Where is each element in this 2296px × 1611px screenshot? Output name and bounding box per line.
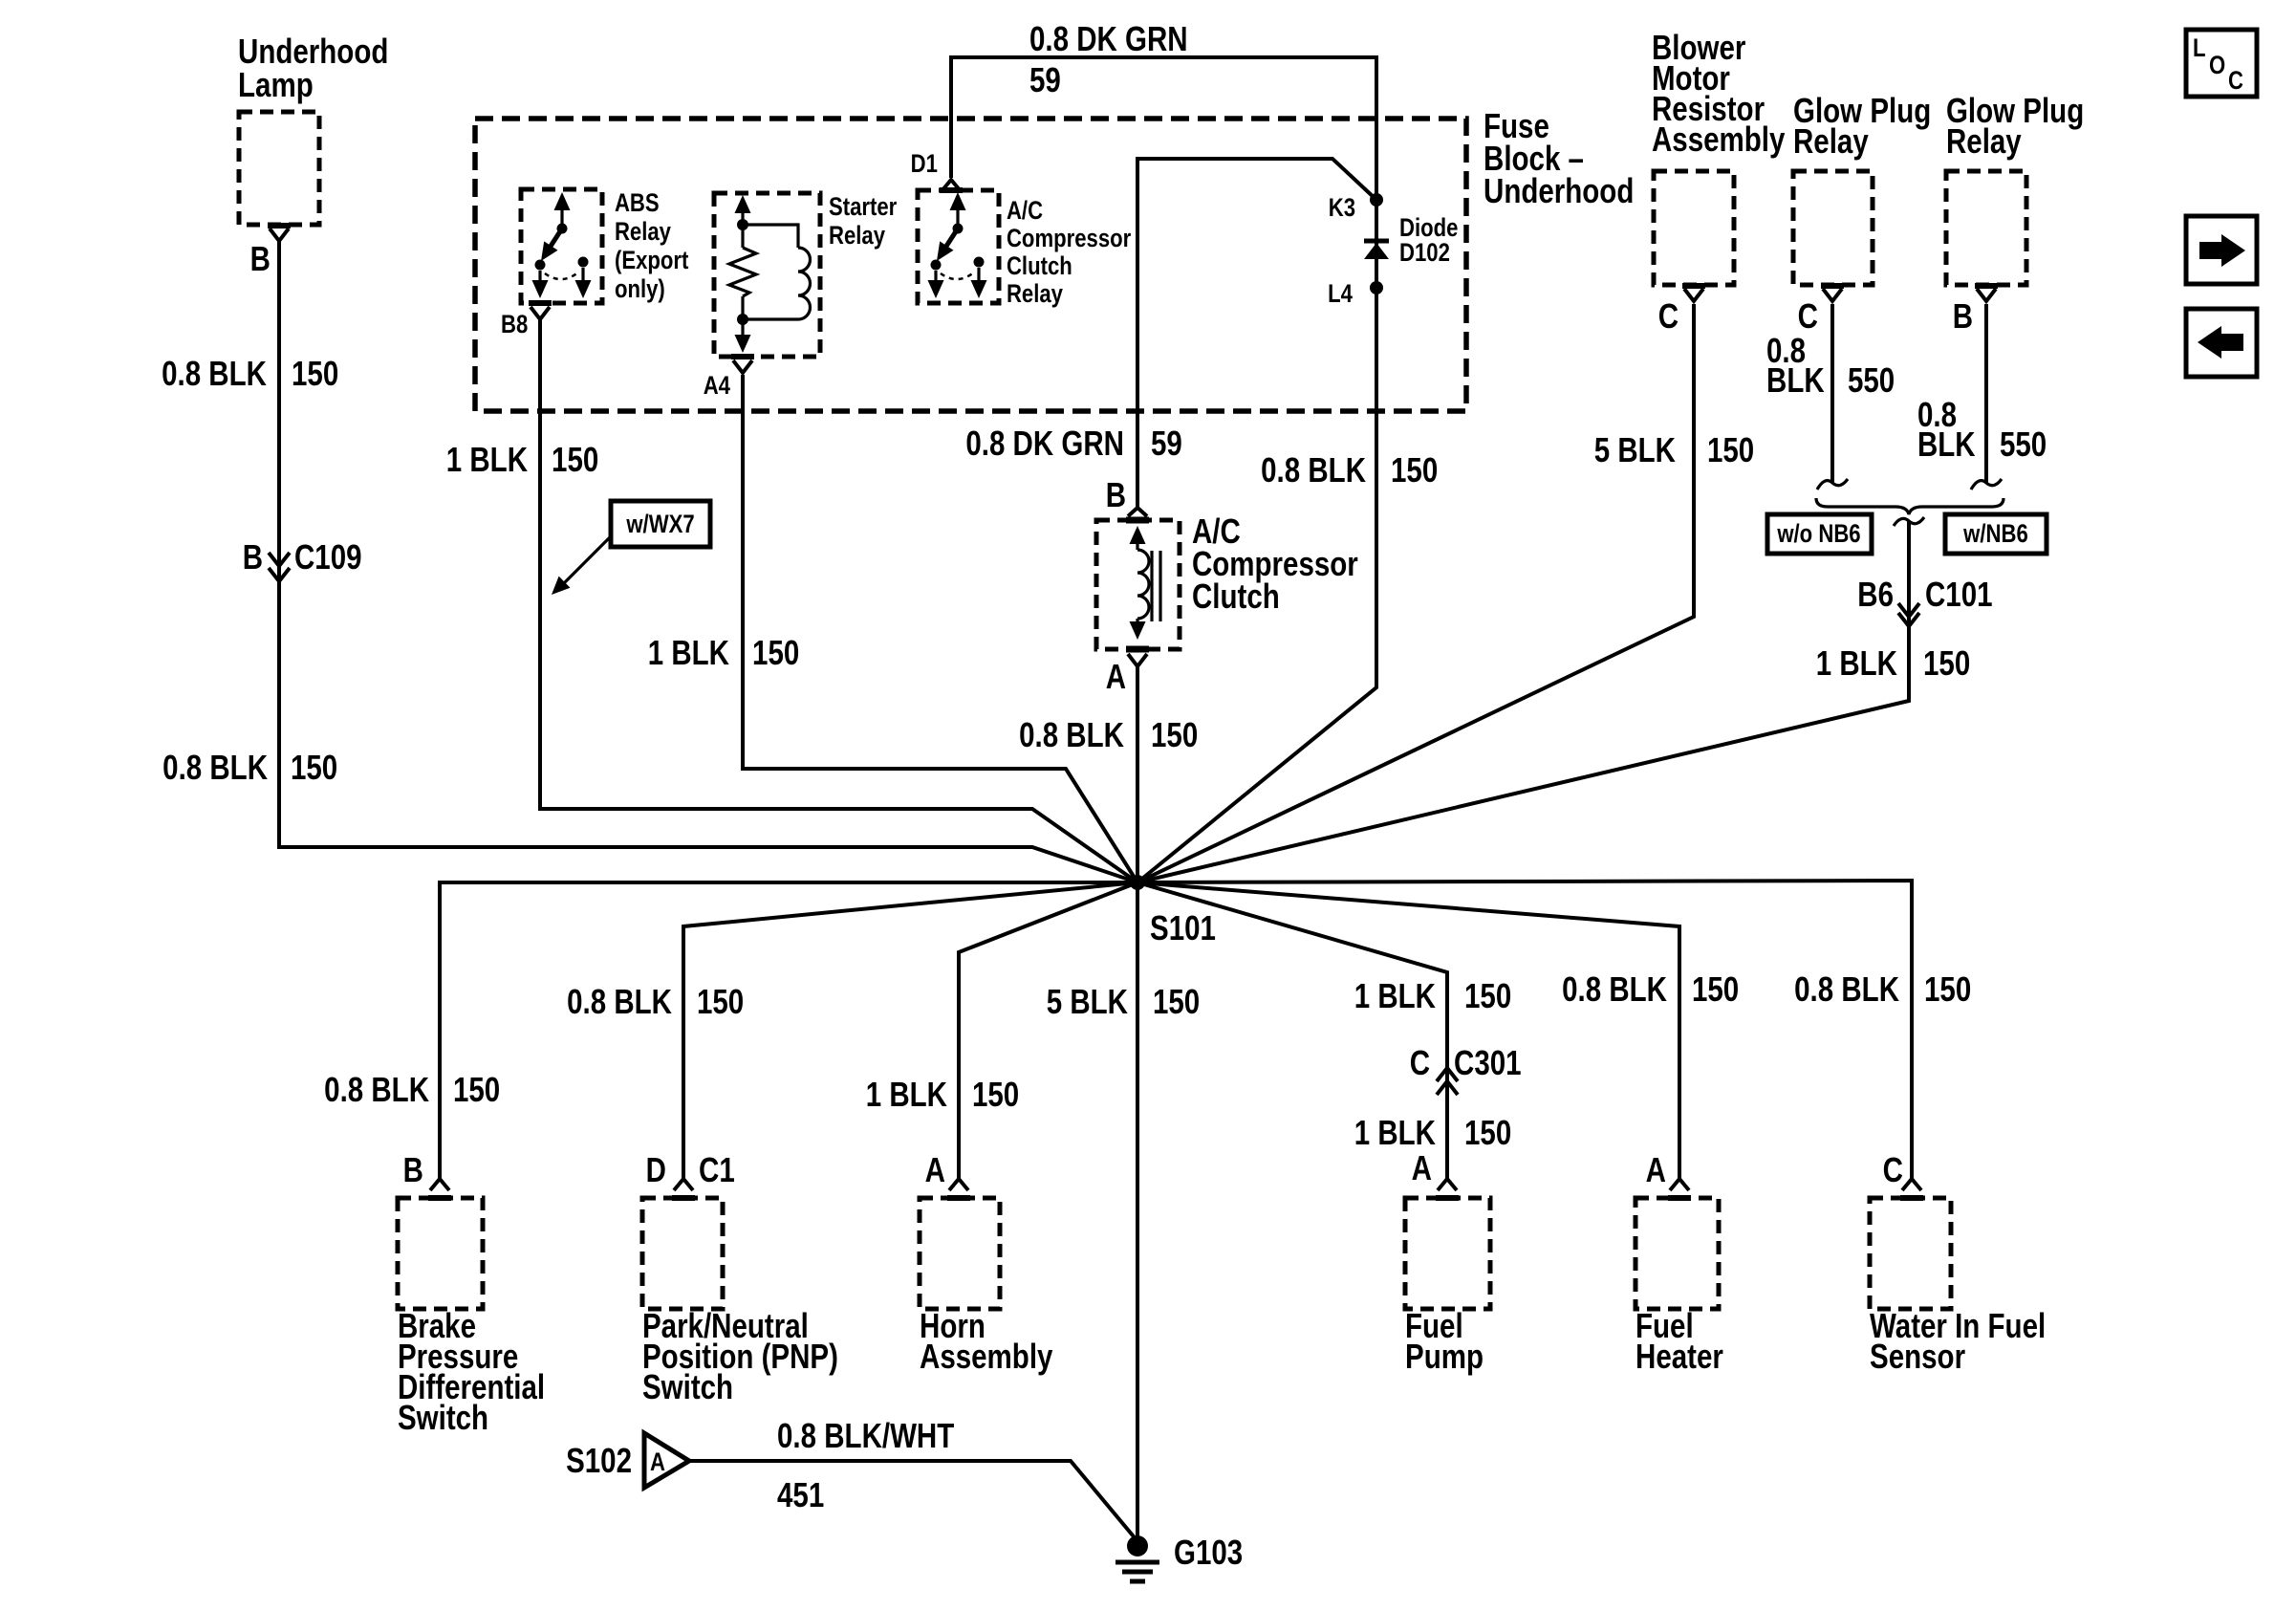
svg-text:B8: B8 xyxy=(501,311,528,339)
coil (starter relay) xyxy=(743,225,798,248)
svg-text:0.8 DK GRN: 0.8 DK GRN xyxy=(965,424,1124,462)
fuel heater dashed box xyxy=(1635,1198,1719,1309)
svg-text:0.8 BLK: 0.8 BLK xyxy=(567,982,672,1020)
svg-text:Pump: Pump xyxy=(1405,1337,1484,1375)
svg-text:C: C xyxy=(1410,1043,1430,1081)
pin A chevron fuel pump xyxy=(1438,1179,1457,1190)
node K3 xyxy=(1370,193,1383,207)
pin C chevron glow plug relay 1 xyxy=(1823,289,1842,301)
svg-text:0.8 BLK: 0.8 BLK xyxy=(1562,969,1667,1008)
wire 1 BLK 150 from S101 through C301 to fuel pump A xyxy=(1137,882,1447,1179)
svg-text:C101: C101 xyxy=(1925,575,1993,613)
svg-text:150: 150 xyxy=(1151,715,1198,753)
svg-text:C109: C109 xyxy=(294,537,362,576)
svg-text:Relay: Relay xyxy=(1946,121,2022,160)
svg-text:Assembly: Assembly xyxy=(920,1337,1053,1375)
back arrow box xyxy=(2186,309,2257,377)
svg-text:59: 59 xyxy=(1151,424,1182,462)
svg-text:150: 150 xyxy=(292,354,338,392)
resistor (starter relay) xyxy=(729,248,756,296)
pin A chevron horn xyxy=(949,1179,968,1190)
svg-text:C1: C1 xyxy=(699,1150,735,1188)
pin B chevron underhood lamp xyxy=(270,229,289,241)
svg-text:0.8 BLK: 0.8 BLK xyxy=(324,1070,429,1108)
svg-text:150: 150 xyxy=(453,1070,500,1108)
svg-text:0.8 BLK: 0.8 BLK xyxy=(162,354,267,392)
park/neutral position switch dashed box xyxy=(642,1198,723,1309)
svg-text:150: 150 xyxy=(1153,982,1200,1020)
svg-text:0.8 BLK: 0.8 BLK xyxy=(1019,715,1124,753)
ABS relay dashed box xyxy=(521,189,602,303)
svg-text:A: A xyxy=(1646,1150,1666,1188)
wire 0.8 BLK 550 from glow plug relay C to splice tilde xyxy=(1830,304,1834,483)
svg-text:150: 150 xyxy=(552,440,598,478)
svg-text:150: 150 xyxy=(291,748,337,786)
svg-text:D102: D102 xyxy=(1399,239,1450,268)
svg-text:w/WX7: w/WX7 xyxy=(625,511,694,539)
svg-text:0.8 BLK: 0.8 BLK xyxy=(1261,450,1366,489)
svg-text:1 BLK: 1 BLK xyxy=(648,633,729,671)
water in fuel sensor dashed box xyxy=(1870,1198,1951,1309)
diode D102 xyxy=(1364,241,1389,259)
svg-text:Switch: Switch xyxy=(398,1398,488,1436)
svg-text:451: 451 xyxy=(777,1475,824,1513)
svg-text:only): only) xyxy=(615,275,665,304)
w/WX7 arrow xyxy=(564,536,611,583)
starter relay dashed box xyxy=(714,193,820,357)
svg-text:C: C xyxy=(2228,67,2243,96)
A/C compressor clutch relay dashed box xyxy=(918,190,999,303)
svg-text:Clutch: Clutch xyxy=(1007,252,1072,281)
svg-text:A: A xyxy=(650,1448,665,1477)
glow plug relay 2 dashed box xyxy=(1946,171,2026,285)
wire 0.8 BLK 150 from A/C clutch A down to S101 xyxy=(1136,666,1139,882)
svg-text:150: 150 xyxy=(1391,450,1438,489)
svg-text:B: B xyxy=(250,239,271,277)
svg-text:0.8 BLK: 0.8 BLK xyxy=(1794,969,1899,1008)
connector C109 double chevron xyxy=(269,553,290,581)
svg-text:A: A xyxy=(1412,1148,1432,1186)
ABS relay switch symbol xyxy=(532,192,592,298)
pin B chevron A/C clutch xyxy=(1128,508,1147,516)
svg-text:Assembly: Assembly xyxy=(1652,120,1786,158)
svg-text:Relay: Relay xyxy=(615,218,671,247)
splice S102 triangle xyxy=(644,1433,689,1488)
fuse block underhood dashed box xyxy=(475,119,1466,411)
svg-text:1 BLK: 1 BLK xyxy=(1354,976,1436,1014)
wire 0.8 BLK 150 from S101 to water in fuel sensor C xyxy=(1137,881,1912,1179)
svg-text:Lamp: Lamp xyxy=(238,65,314,103)
svg-text:150: 150 xyxy=(1464,1113,1511,1151)
wire 0.8 BLK 150 from K3 through diode D102 and L4 down to S101 xyxy=(1137,200,1376,882)
svg-text:C301: C301 xyxy=(1454,1043,1522,1081)
wire 0.8 DK GRN 59 top run from D1 to K3 xyxy=(951,57,1376,200)
svg-text:550: 550 xyxy=(2000,425,2047,463)
svg-text:0.8 BLK: 0.8 BLK xyxy=(162,748,268,786)
svg-text:G103: G103 xyxy=(1174,1533,1243,1571)
pin A4 chevron xyxy=(733,360,752,373)
tilde below brace xyxy=(1894,517,1924,526)
wire 5 BLK 150 from blower motor resistor C to S101 xyxy=(1137,304,1694,882)
svg-text:L4: L4 xyxy=(1328,280,1353,309)
brace joining glow plug wires xyxy=(1816,498,2004,514)
svg-text:Clutch: Clutch xyxy=(1192,577,1280,615)
forward arrow box xyxy=(2186,216,2257,284)
starter relay coil and resistor symbol xyxy=(729,195,810,353)
option box w/o NB6 xyxy=(1767,514,1872,554)
option box w/NB6 xyxy=(1945,514,2047,554)
w/WX7 box xyxy=(611,501,710,547)
wire 0.8 BLK 150 from S101 to PNP switch D xyxy=(683,882,1137,1179)
svg-text:D1: D1 xyxy=(911,150,939,179)
wire 1 BLK 150 from B8 to S101 xyxy=(540,319,1137,882)
svg-text:L: L xyxy=(2193,34,2206,63)
A/C compressor clutch relay switch symbol xyxy=(928,192,987,298)
wire 1 BLK 150 from A4 starter relay to S101 xyxy=(743,375,1137,882)
svg-text:D: D xyxy=(646,1150,666,1188)
wire 0.8 BLK 550 from glow plug relay B to splice tilde xyxy=(1984,304,1988,483)
svg-text:5 BLK: 5 BLK xyxy=(1047,982,1128,1020)
svg-text:Compressor: Compressor xyxy=(1007,225,1132,253)
svg-text:Heater: Heater xyxy=(1635,1337,1723,1375)
svg-text:1 BLK: 1 BLK xyxy=(1816,643,1897,682)
svg-text:B6: B6 xyxy=(1857,575,1894,613)
wire 0.8 BLK 150 from S101 to fuel heater A xyxy=(1137,882,1679,1179)
pin C chevron water in fuel sensor xyxy=(1902,1179,1921,1190)
svg-text:BLK: BLK xyxy=(1766,360,1825,399)
wire 0.8 BLK/WHT 451 from S102 to G103 xyxy=(690,1461,1137,1541)
A/C clutch coil symbol xyxy=(1130,526,1161,640)
wire end tilde glow 1 xyxy=(1817,479,1848,490)
svg-text:150: 150 xyxy=(1923,643,1970,682)
underhood lamp dashed box xyxy=(239,112,319,225)
svg-text:1 BLK: 1 BLK xyxy=(866,1075,947,1113)
svg-text:150: 150 xyxy=(697,982,744,1020)
svg-text:A: A xyxy=(1106,657,1126,695)
svg-text:Underhood: Underhood xyxy=(1484,171,1634,209)
svg-text:1 BLK: 1 BLK xyxy=(446,440,528,478)
svg-text:C: C xyxy=(1798,296,1818,335)
pin B chevron glow plug relay 2 xyxy=(1977,289,1996,301)
connector C301 double chevron xyxy=(1437,1068,1458,1095)
pin D1 chevron xyxy=(942,180,961,191)
blower motor resistor assembly dashed box xyxy=(1654,171,1734,285)
pin C chevron blower xyxy=(1684,289,1703,301)
wire 0.8 BLK 150 from S101 to brake pressure differential switch B xyxy=(440,882,1137,1179)
svg-text:C: C xyxy=(1658,296,1679,335)
svg-text:B: B xyxy=(243,537,263,576)
svg-text:59: 59 xyxy=(1029,60,1061,98)
svg-text:C: C xyxy=(1883,1150,1903,1188)
svg-text:150: 150 xyxy=(1924,969,1971,1008)
svg-text:BLK: BLK xyxy=(1917,425,1976,463)
svg-text:ABS: ABS xyxy=(615,189,660,218)
wire end tilde glow 2 xyxy=(1971,479,2002,490)
pin A chevron fuel heater xyxy=(1670,1179,1689,1190)
glow plug relay 1 dashed box xyxy=(1793,171,1873,285)
svg-text:Relay: Relay xyxy=(1793,121,1869,160)
ground G103 xyxy=(1116,1535,1159,1581)
svg-text:5 BLK: 5 BLK xyxy=(1594,430,1676,468)
svg-text:(Export: (Export xyxy=(615,247,688,275)
connector C101 double chevron xyxy=(1898,603,1919,626)
svg-text:K3: K3 xyxy=(1329,194,1355,223)
svg-text:A/C: A/C xyxy=(1007,197,1043,226)
svg-text:1 BLK: 1 BLK xyxy=(1354,1113,1436,1151)
svg-text:150: 150 xyxy=(1707,430,1754,468)
wire 1 BLK 150 from brace through B6 C101 to S101 xyxy=(1137,521,1909,882)
fuel pump dashed box xyxy=(1405,1198,1490,1309)
svg-text:O: O xyxy=(2209,52,2225,80)
brake pressure differential switch dashed box xyxy=(398,1198,483,1309)
svg-text:150: 150 xyxy=(1692,969,1739,1008)
svg-text:550: 550 xyxy=(1848,360,1895,399)
svg-text:0.8 BLK/WHT: 0.8 BLK/WHT xyxy=(777,1416,954,1454)
wire 0.8 BLK 150 from underhood lamp B through C109 to S101 xyxy=(279,241,1137,882)
svg-text:Switch: Switch xyxy=(642,1367,733,1405)
svg-text:150: 150 xyxy=(972,1075,1019,1113)
svg-text:w/NB6: w/NB6 xyxy=(1962,520,2028,549)
svg-text:S102: S102 xyxy=(566,1441,632,1479)
svg-text:Sensor: Sensor xyxy=(1870,1337,1965,1375)
svg-text:B: B xyxy=(403,1150,423,1188)
A/C compressor clutch dashed box xyxy=(1096,520,1180,649)
svg-text:150: 150 xyxy=(1464,976,1511,1014)
svg-text:w/o NB6: w/o NB6 xyxy=(1776,520,1860,549)
pin A chevron A/C clutch xyxy=(1128,654,1147,666)
svg-text:B: B xyxy=(1953,296,1973,335)
pin B8 chevron xyxy=(531,307,550,319)
horn assembly dashed box xyxy=(920,1198,1000,1309)
splice S101 xyxy=(1130,875,1145,890)
wire 0.8 DK GRN 59 from A/C compressor clutch B up and over to K3 xyxy=(1137,159,1376,508)
svg-text:A: A xyxy=(925,1150,945,1188)
svg-text:150: 150 xyxy=(752,633,799,671)
svg-text:A4: A4 xyxy=(704,372,731,401)
svg-text:0.8 DK GRN: 0.8 DK GRN xyxy=(1029,19,1188,57)
svg-text:S101: S101 xyxy=(1150,908,1216,947)
svg-text:Relay: Relay xyxy=(829,222,885,250)
pin B chevron brake switch xyxy=(430,1179,449,1190)
svg-text:Starter: Starter xyxy=(829,193,898,222)
LOC box xyxy=(2186,30,2257,97)
node L4 xyxy=(1370,281,1383,294)
svg-text:B: B xyxy=(1106,475,1126,513)
svg-text:Relay: Relay xyxy=(1007,280,1063,309)
wire 1 BLK 150 from S101 to horn assembly A xyxy=(959,882,1137,1179)
pin D chevron PNP switch xyxy=(674,1179,693,1190)
wire 5 BLK 150 from S101 down to G103 xyxy=(1136,882,1139,1537)
